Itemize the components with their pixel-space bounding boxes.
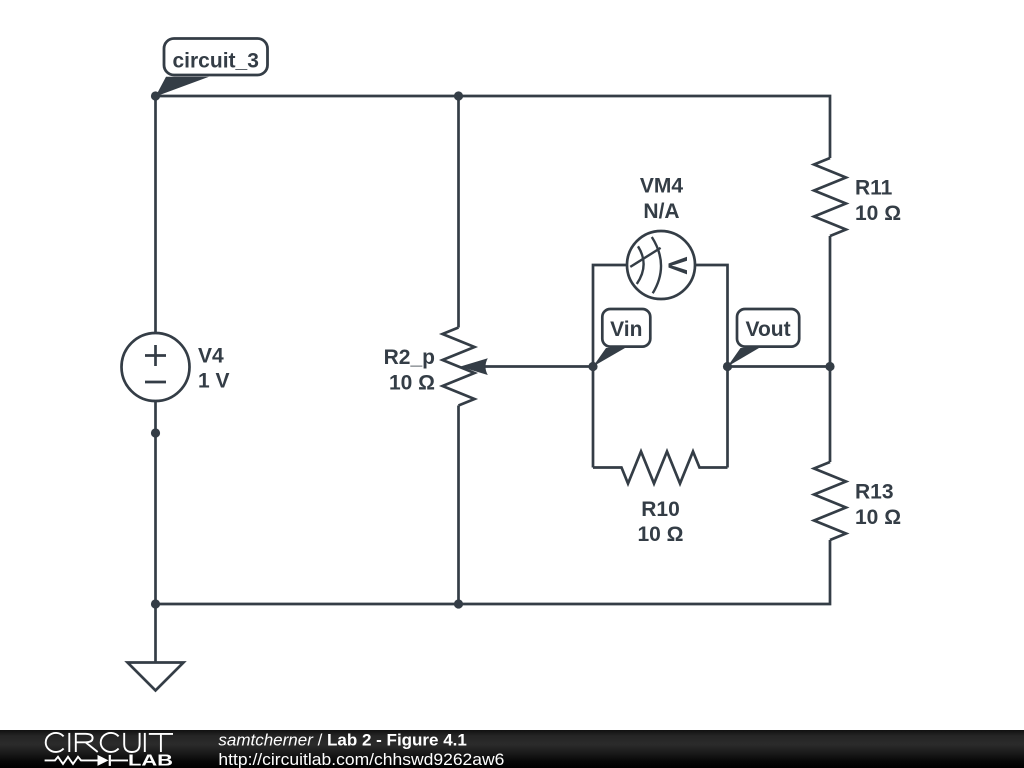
wire: Vout to right rail xyxy=(728,365,831,368)
svg-text:10 Ω: 10 Ω xyxy=(637,523,683,546)
svg-text:Vout: Vout xyxy=(746,318,791,341)
wire: wiper lead xyxy=(484,365,593,368)
node: Vout xyxy=(723,362,732,371)
potentiometer R2_p xyxy=(443,328,475,406)
node: bottom center junction xyxy=(454,599,463,608)
net flag Vout xyxy=(728,309,800,367)
node: bottom-left corner xyxy=(151,599,160,608)
voltage source V4 xyxy=(122,333,190,401)
resistor R13 xyxy=(814,462,846,540)
resistor R11 xyxy=(814,158,846,236)
node: V4 negative terminal xyxy=(151,428,160,437)
svg-text:http://circuitlab.com/chhswd92: http://circuitlab.com/chhswd9262aw6 xyxy=(218,750,504,768)
wire: voltmeter right lead and Vout vertical xyxy=(695,265,728,468)
svg-text:10 Ω: 10 Ω xyxy=(389,372,435,395)
svg-text:samtcherner / Lab 2 - Figure 4: samtcherner / Lab 2 - Figure 4.1 xyxy=(218,731,466,750)
wire: R2_p branch upper xyxy=(457,96,460,328)
net flag Vin xyxy=(593,309,650,367)
net flag circuit_3 xyxy=(156,39,268,97)
svg-text:10 Ω: 10 Ω xyxy=(855,506,901,529)
svg-text:V4: V4 xyxy=(198,345,224,368)
ground xyxy=(128,663,184,691)
wire: top rail xyxy=(156,96,831,158)
wire: R2_p branch lower xyxy=(457,406,460,605)
node: Vin xyxy=(588,362,597,371)
wiper arrow xyxy=(460,358,488,375)
svg-text:VM4: VM4 xyxy=(640,175,684,198)
svg-text:N/A: N/A xyxy=(643,200,679,223)
svg-text:V: V xyxy=(663,256,693,274)
node: top-left corner xyxy=(151,91,160,100)
svg-text:circuit_3: circuit_3 xyxy=(173,50,259,73)
svg-text:LAB: LAB xyxy=(128,752,173,768)
wire: ground stem xyxy=(154,604,157,663)
wire: V4 bottom lead xyxy=(154,401,157,604)
svg-text:10 Ω: 10 Ω xyxy=(855,202,901,225)
node: Vout right junction xyxy=(825,362,834,371)
svg-text:Vin: Vin xyxy=(610,318,642,341)
resistor R10 xyxy=(593,452,728,484)
svg-text:R13: R13 xyxy=(855,481,894,504)
wire: right rail middle xyxy=(829,236,832,462)
wire: bottom rail xyxy=(156,540,831,604)
svg-text:R10: R10 xyxy=(641,498,680,521)
svg-text:1 V: 1 V xyxy=(198,370,230,393)
wire: left rail to V4 top xyxy=(154,96,157,333)
svg-text:R11: R11 xyxy=(855,177,893,200)
voltmeter VM4 xyxy=(627,231,695,299)
CircuitLab logo xyxy=(45,733,173,766)
wire: voltmeter left lead and Vin vertical xyxy=(593,265,627,468)
svg-text:R2_p: R2_p xyxy=(384,346,435,369)
node: top center junction xyxy=(454,91,463,100)
